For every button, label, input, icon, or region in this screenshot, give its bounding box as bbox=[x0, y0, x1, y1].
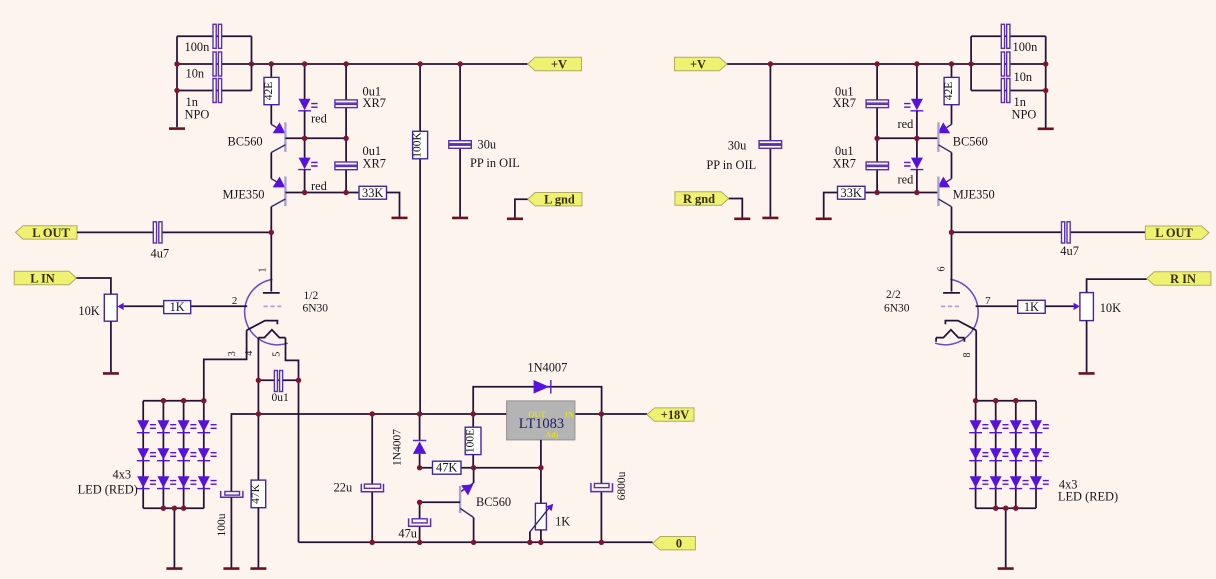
net flag +18V bbox=[647, 408, 694, 421]
LED column 3 right bbox=[1015, 401, 1017, 509]
capacitor 0u1 XR7 upper right bbox=[876, 64, 878, 138]
LED D12 right bbox=[1030, 476, 1042, 488]
potentiometer 10K right bbox=[1080, 293, 1094, 321]
capacitor 30u PP in OIL right bbox=[769, 64, 771, 217]
tube cathode right bbox=[945, 321, 976, 331]
junction dots rail 18V bbox=[256, 411, 261, 416]
svg-text:NPO: NPO bbox=[185, 107, 210, 121]
tube envelope arc right bbox=[935, 279, 978, 344]
LED red 2 right bbox=[916, 138, 918, 158]
LED D9 left bbox=[137, 476, 149, 488]
svg-text:PP in OIL: PP in OIL bbox=[470, 156, 520, 170]
wire L gnd to ground bbox=[515, 199, 528, 218]
junction dots node rows R bbox=[874, 136, 879, 141]
resistor 42E right bbox=[951, 64, 953, 124]
ground (30u left) bbox=[452, 217, 468, 220]
capacitor C 10n bbox=[213, 52, 216, 76]
tube grid dashes bbox=[264, 305, 282, 307]
svg-text:L OUT: L OUT bbox=[32, 226, 70, 240]
svg-text:10K: 10K bbox=[78, 304, 99, 318]
wire 100n row bbox=[177, 35, 252, 37]
tube anode lead pin 1 bbox=[270, 232, 272, 291]
svg-text:3: 3 bbox=[227, 351, 238, 356]
resistor 47K vertical left bbox=[251, 480, 266, 508]
svg-text:+V: +V bbox=[690, 58, 706, 72]
ground (100u) bbox=[223, 567, 239, 570]
junction dots row 47K bbox=[417, 465, 422, 470]
net flag +V right bbox=[675, 57, 727, 70]
LED D1 right bbox=[970, 420, 982, 432]
ground (33K right) bbox=[816, 218, 832, 221]
capacitor C 100n bbox=[213, 24, 216, 48]
resistor 42E bbox=[270, 64, 272, 124]
wire pot to ground bbox=[110, 321, 112, 372]
transistor BC560 regulator bbox=[473, 468, 475, 483]
wire 33K to ground bbox=[387, 193, 400, 217]
svg-text:5: 5 bbox=[271, 352, 282, 357]
capacitor 100u bbox=[225, 492, 240, 496]
svg-text:L IN: L IN bbox=[30, 271, 54, 285]
ground (pot right) bbox=[1079, 372, 1095, 375]
net flag L OUT left bbox=[16, 226, 78, 239]
ground (pot left) bbox=[103, 372, 119, 375]
net flag R gnd bbox=[675, 192, 729, 205]
tube anode plate bbox=[263, 292, 280, 294]
wire 1n row bbox=[177, 90, 252, 92]
svg-text:2/2: 2/2 bbox=[886, 289, 901, 301]
tube grid dashes right bbox=[941, 305, 959, 307]
tube envelope arc bbox=[245, 279, 288, 344]
LED array 4x3 right bottom rail bbox=[976, 507, 1036, 509]
wire right rail of right cap block bbox=[1045, 36, 1047, 128]
svg-text:10n: 10n bbox=[1014, 70, 1033, 84]
transistor Q MJE350 left bbox=[271, 179, 285, 187]
diode 1N4007 vertical bbox=[419, 414, 421, 468]
resistor 47K horizontal bbox=[420, 467, 541, 469]
svg-text:XR7: XR7 bbox=[833, 96, 856, 110]
resistor 100E bbox=[472, 414, 474, 468]
wire pin 8 to LED rail right bbox=[975, 330, 977, 400]
wire left rail of right cap block bbox=[970, 36, 972, 90]
svg-text:4: 4 bbox=[244, 351, 255, 356]
net flag 0 bbox=[653, 537, 696, 550]
tube cathode bbox=[247, 321, 278, 331]
LED D7 right bbox=[1010, 448, 1022, 460]
svg-text:10K: 10K bbox=[1100, 301, 1121, 315]
ground (right cap block) bbox=[1038, 128, 1054, 131]
svg-text:42E: 42E bbox=[263, 82, 275, 101]
diode 1N4007 bypass top bbox=[473, 387, 601, 414]
wire grid lead to 1K right bbox=[976, 305, 1018, 307]
junction dots rail +V R bbox=[768, 61, 773, 66]
LED D5 right bbox=[970, 448, 982, 460]
LED column 2 left bbox=[162, 401, 164, 509]
svg-text:OUT: OUT bbox=[528, 410, 546, 419]
resistor 100K bbox=[419, 64, 421, 414]
svg-text:6N30: 6N30 bbox=[303, 302, 329, 314]
wire +V rail left bbox=[177, 63, 528, 65]
tube anode lead pin 6 bbox=[951, 232, 953, 291]
svg-text:7: 7 bbox=[985, 295, 991, 307]
capacitor 47u bbox=[419, 502, 421, 542]
net flag R IN bbox=[1147, 272, 1211, 285]
capacitor 4u7 right bbox=[952, 231, 1146, 233]
svg-text:L OUT: L OUT bbox=[1155, 226, 1193, 240]
svg-text:0: 0 bbox=[676, 537, 682, 551]
svg-text:LED (RED): LED (RED) bbox=[1058, 490, 1118, 504]
LED column 1 left bbox=[142, 401, 144, 509]
wire R gnd to ground bbox=[729, 199, 743, 218]
capacitor 6800u bbox=[600, 414, 602, 542]
LED D9 right bbox=[970, 476, 982, 488]
regulator LT1083 bbox=[507, 401, 575, 440]
capacitor C 1n NPO bbox=[213, 79, 216, 103]
ground (R gnd) bbox=[734, 218, 750, 221]
svg-text:R IN: R IN bbox=[1170, 272, 1196, 286]
LED D8 right bbox=[1030, 448, 1042, 460]
ground (LED right) bbox=[998, 567, 1014, 570]
capacitor 30u PP in OIL left bbox=[459, 64, 461, 217]
net flag L IN bbox=[14, 271, 76, 284]
svg-text:BC560: BC560 bbox=[228, 135, 263, 149]
wire grid lead from 1K bbox=[191, 305, 248, 307]
wire 0 rail bbox=[299, 541, 653, 543]
wire +V rail right bbox=[727, 63, 1046, 65]
svg-text:red: red bbox=[311, 179, 328, 193]
svg-text:2: 2 bbox=[232, 295, 238, 307]
wire LED left to ground bbox=[173, 508, 175, 567]
wire 33K right to ground bbox=[824, 193, 838, 219]
LED red 2 left bbox=[304, 138, 306, 158]
svg-text:LED (RED): LED (RED) bbox=[78, 482, 138, 496]
svg-text:100n: 100n bbox=[1013, 40, 1038, 54]
capacitor 0u1 XR7 lower right bbox=[876, 138, 878, 192]
LED column 4 right bbox=[1035, 401, 1037, 509]
ground (LED left) bbox=[166, 567, 182, 570]
LED D6 left bbox=[157, 448, 169, 460]
wire pot top to R IN bbox=[1087, 279, 1147, 293]
capacitor C 1n NPO right bbox=[1001, 79, 1004, 103]
LED D8 left bbox=[198, 448, 210, 460]
LED array 4x3 left top rail bbox=[143, 400, 204, 402]
LED column 2 right bbox=[995, 401, 997, 509]
svg-text:10n: 10n bbox=[186, 66, 205, 80]
LED D10 left bbox=[157, 476, 169, 488]
svg-text:Adj: Adj bbox=[545, 431, 558, 440]
capacitor 4u7 left bbox=[77, 231, 271, 233]
LED red 1 right bbox=[916, 64, 918, 99]
wire +18V rail bbox=[231, 414, 647, 492]
svg-text:1N4007: 1N4007 bbox=[527, 360, 567, 374]
transistor Q BC560 right bbox=[938, 124, 951, 132]
junction dots LED rails R bbox=[973, 398, 978, 403]
ground (33K left) bbox=[392, 217, 408, 220]
svg-text:42E: 42E bbox=[943, 82, 955, 101]
capacitor 0u1 XR7 lower left bbox=[345, 138, 347, 192]
wire 100n row right bbox=[971, 35, 1046, 37]
tube heater right bbox=[936, 330, 964, 342]
net flag L gnd bbox=[528, 193, 582, 206]
svg-text:33K: 33K bbox=[841, 186, 862, 200]
ground (bypass block) bbox=[169, 127, 185, 130]
svg-text:1K: 1K bbox=[555, 515, 570, 529]
svg-text:NPO: NPO bbox=[1012, 107, 1037, 121]
svg-text:6800u: 6800u bbox=[616, 471, 628, 500]
svg-text:1/2: 1/2 bbox=[304, 290, 319, 302]
svg-text:47K: 47K bbox=[436, 461, 457, 475]
svg-text:6: 6 bbox=[937, 267, 948, 272]
wire pin 5 down to 0 rail bbox=[286, 338, 299, 543]
svg-text:+V: +V bbox=[551, 58, 567, 72]
LED D4 left bbox=[198, 420, 210, 432]
svg-text:1: 1 bbox=[257, 268, 268, 273]
svg-text:22u: 22u bbox=[334, 481, 353, 495]
junction dots LED rails L bbox=[161, 398, 166, 403]
capacitor C 100n right bbox=[1001, 24, 1004, 48]
LED D5 left bbox=[137, 448, 149, 460]
wire right rail of bypass cap block bbox=[251, 36, 253, 90]
LED D11 right bbox=[1010, 476, 1022, 488]
svg-text:1K: 1K bbox=[1024, 300, 1039, 314]
wire base row 2 right bbox=[865, 192, 938, 194]
junction dots node rows L bbox=[302, 136, 307, 141]
LED D3 right bbox=[1010, 420, 1022, 432]
svg-text:red: red bbox=[898, 117, 915, 131]
wire 1K to pot right bbox=[1045, 305, 1073, 307]
wire pin 3 to LED rail bbox=[204, 330, 247, 400]
net flag L OUT right bbox=[1145, 226, 1209, 239]
wire base row 1 right bbox=[877, 137, 938, 139]
tube heater bbox=[258, 330, 285, 338]
svg-text:IN: IN bbox=[565, 411, 574, 420]
svg-text:red: red bbox=[898, 173, 915, 187]
junction dots rail 0 bbox=[370, 540, 375, 545]
svg-text:0u1: 0u1 bbox=[272, 392, 290, 404]
resistor 1K left bbox=[164, 301, 191, 314]
transistor Q MJE350 right bbox=[938, 179, 951, 187]
svg-text:1K: 1K bbox=[170, 300, 185, 314]
transistor Q BC560 left bbox=[271, 124, 285, 132]
ground (30u right) bbox=[762, 217, 778, 220]
LED D11 left bbox=[178, 476, 190, 488]
svg-text:4u7: 4u7 bbox=[1060, 244, 1079, 258]
junction dots heater nodes bbox=[256, 378, 261, 383]
svg-text:red: red bbox=[311, 111, 328, 125]
LED D2 left bbox=[157, 420, 169, 432]
svg-text:XR7: XR7 bbox=[363, 156, 386, 170]
wire pot wiper to 1K bbox=[124, 305, 164, 307]
LED column 3 left bbox=[183, 401, 185, 509]
svg-text:4u7: 4u7 bbox=[151, 246, 170, 260]
svg-text:BC560: BC560 bbox=[476, 495, 511, 509]
wire base row 2 left / to 33K bbox=[285, 192, 359, 194]
LED array 4x3 left bottom rail bbox=[143, 507, 204, 509]
LED D4 right bbox=[1030, 420, 1042, 432]
svg-text:1N4007: 1N4007 bbox=[392, 429, 404, 466]
LED D6 right bbox=[990, 448, 1002, 460]
ground (L gnd) bbox=[507, 218, 523, 221]
potentiometer 1K regulator bbox=[535, 503, 546, 530]
wire 1n row right bbox=[971, 90, 1046, 92]
svg-text:L gnd: L gnd bbox=[544, 193, 575, 207]
LED D10 right bbox=[990, 476, 1002, 488]
wire left rail of bypass cap block bbox=[176, 36, 178, 127]
LED D1 left bbox=[137, 420, 149, 432]
svg-text:8: 8 bbox=[962, 353, 973, 358]
junction dots base node bbox=[417, 500, 422, 505]
wire L IN to pot bbox=[77, 278, 111, 294]
LED column 4 left bbox=[203, 401, 205, 509]
svg-text:BC560: BC560 bbox=[953, 134, 988, 148]
capacitor 0u1 XR7 upper left bbox=[345, 64, 347, 138]
wire LT1083 Adj bbox=[540, 440, 542, 503]
capacitor 22u bbox=[371, 414, 373, 542]
svg-text:XR7: XR7 bbox=[363, 96, 386, 110]
svg-text:100K: 100K bbox=[412, 132, 424, 158]
wire base row 1 left bbox=[285, 137, 346, 139]
svg-text:100E: 100E bbox=[465, 429, 477, 453]
resistor 33K left bbox=[359, 186, 387, 199]
svg-text:100n: 100n bbox=[185, 40, 210, 54]
svg-text:4x3: 4x3 bbox=[113, 468, 132, 482]
capacitor C 10n right bbox=[1001, 52, 1004, 76]
svg-text:PP in OIL: PP in OIL bbox=[706, 158, 756, 172]
LED D3 left bbox=[178, 420, 190, 432]
wire LED right to ground bbox=[1005, 508, 1007, 567]
LED column 1 right bbox=[975, 401, 977, 509]
svg-text:R gnd: R gnd bbox=[683, 192, 715, 206]
LED D7 left bbox=[178, 448, 190, 460]
ground (47K left) bbox=[250, 567, 266, 570]
junction dots out nodes bbox=[269, 230, 274, 235]
svg-text:30u: 30u bbox=[478, 137, 497, 151]
svg-text:30u: 30u bbox=[728, 138, 747, 152]
potentiometer 10K left bbox=[104, 294, 117, 321]
wire pin 4 down bbox=[257, 338, 259, 481]
svg-text:47u: 47u bbox=[398, 527, 417, 541]
capacitor 0u1 heater bypass bbox=[258, 379, 298, 381]
junction dots rail +V L bbox=[174, 61, 179, 66]
LED red 1 left bbox=[304, 64, 306, 99]
svg-text:MJE350: MJE350 bbox=[953, 188, 995, 202]
svg-text:MJE350: MJE350 bbox=[223, 188, 265, 202]
svg-text:XR7: XR7 bbox=[833, 156, 856, 170]
LED D2 right bbox=[990, 420, 1002, 432]
svg-text:47K: 47K bbox=[250, 483, 262, 504]
svg-text:33K: 33K bbox=[362, 186, 383, 200]
resistor 33K right bbox=[838, 186, 866, 199]
LED array 4x3 right top rail bbox=[976, 400, 1036, 402]
svg-text:100u: 100u bbox=[216, 513, 228, 536]
LED D12 left bbox=[198, 476, 210, 488]
svg-text:6N30: 6N30 bbox=[884, 303, 910, 315]
resistor 1K right bbox=[1018, 300, 1045, 313]
tube anode plate right bbox=[943, 292, 960, 294]
svg-text:+18V: +18V bbox=[661, 408, 689, 422]
net flag +V left bbox=[528, 57, 582, 70]
wire pot right to ground bbox=[1086, 321, 1088, 373]
